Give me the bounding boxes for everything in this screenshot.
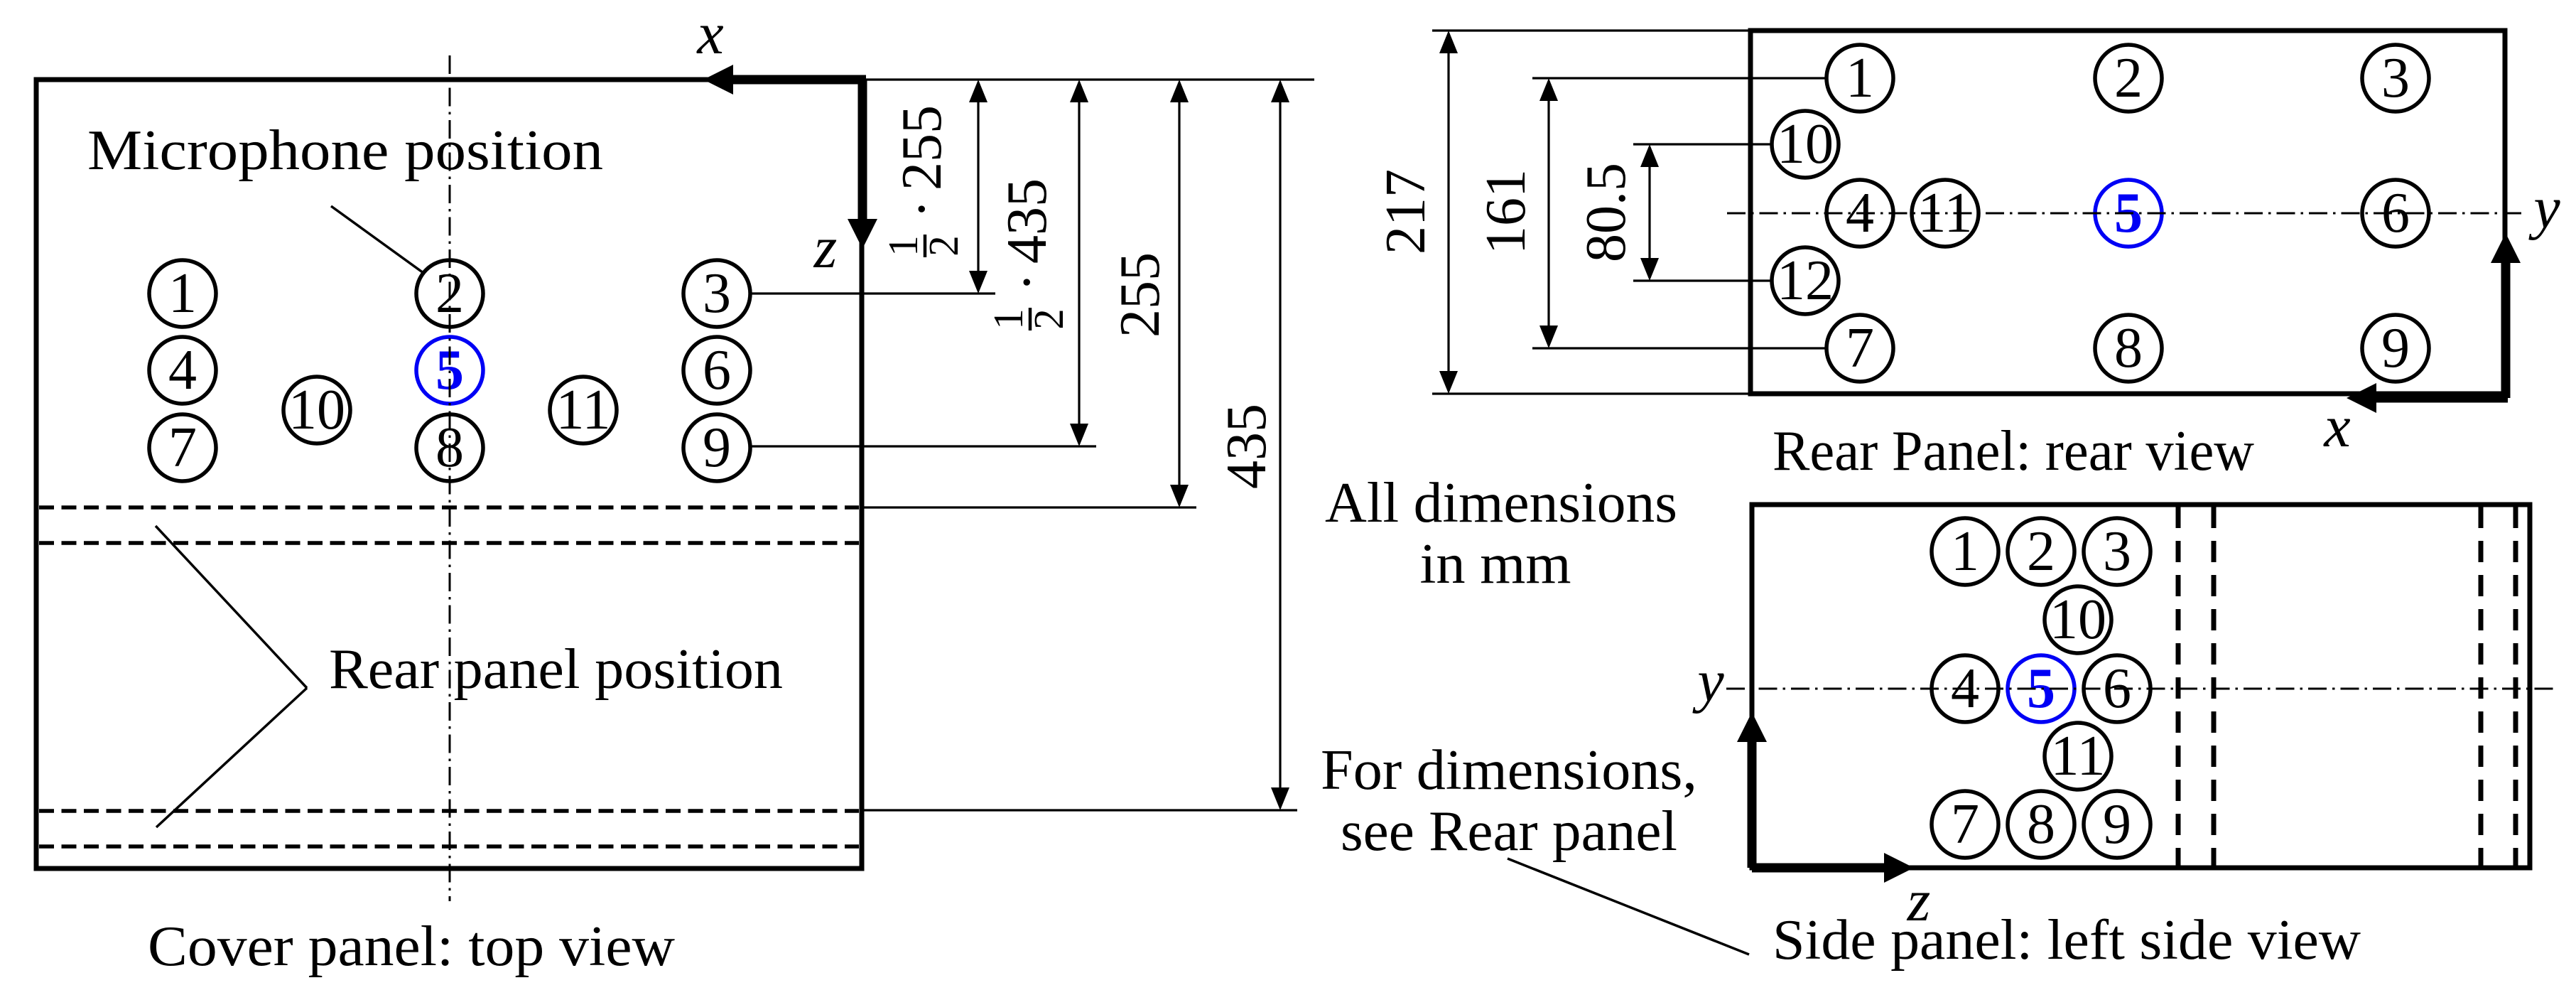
svg-text:x: x — [2322, 394, 2350, 460]
extension line rear panel pos 1 — [862, 506, 1196, 508]
microphone circle 2 (rear) — [2095, 45, 2162, 112]
svg-text:11: 11 — [2050, 725, 2105, 787]
svg-text:9: 9 — [703, 416, 731, 479]
rear panel position dashed line 1a — [39, 505, 859, 510]
microphone circle 8 (rear) — [2095, 315, 2162, 382]
microphone circle 6 (side) — [2084, 655, 2150, 722]
svg-text:7: 7 — [1951, 793, 1979, 856]
extension line circle 10 row (rear) — [1633, 143, 1773, 145]
svg-text:y: y — [2528, 175, 2560, 241]
svg-text:Rear Panel: rear view: Rear Panel: rear view — [1773, 420, 2254, 483]
side panel dashed line 1 — [2176, 507, 2181, 866]
svg-text:x: x — [696, 1, 723, 67]
microphone circle 5 (rear, blue) — [2095, 180, 2162, 247]
svg-text:9: 9 — [2103, 793, 2131, 856]
microphone circle 4 (cover) — [149, 337, 216, 404]
dimension line 80.5 — [1648, 147, 1650, 278]
x axis (cover panel) — [726, 75, 866, 85]
dimension label 255 — [1109, 252, 1171, 338]
microphone circle 4 (side) — [1932, 655, 1998, 722]
svg-text:Microphone position: Microphone position — [87, 119, 603, 182]
svg-text:For dimensions,: For dimensions, — [1321, 739, 1697, 802]
svg-text:3: 3 — [2381, 47, 2410, 109]
rear panel position dashed line 2b — [39, 844, 859, 849]
microphone circle 9 (side) — [2084, 791, 2150, 858]
microphone circle 7 (cover) — [149, 414, 216, 481]
side panel dashed line 4 — [2513, 507, 2518, 866]
dimension label half-435 — [985, 178, 1072, 330]
svg-text:8: 8 — [2114, 317, 2143, 380]
microphone circle 10 (rear) — [1772, 111, 1839, 178]
pointer line to side panel caption — [1508, 859, 1749, 954]
extension line circle 9 row — [751, 445, 1096, 447]
cover panel centerline (dash-dot) — [449, 55, 451, 901]
microphone circle 11 (side) — [2045, 723, 2111, 790]
microphone circle 1 (cover) — [149, 260, 216, 327]
svg-text:255: 255 — [1109, 252, 1171, 338]
rear panel extension line bottom — [1432, 392, 1750, 394]
z axis (side panel) — [1752, 864, 1885, 873]
svg-text:3: 3 — [703, 262, 731, 325]
svg-text:Rear panel position: Rear panel position — [329, 638, 783, 701]
svg-text:Side panel: left side view: Side panel: left side view — [1773, 909, 2361, 972]
microphone circle 5 (side, blue) — [2008, 655, 2074, 722]
microphone position pointer line — [331, 206, 423, 273]
rear panel extension line top — [1432, 29, 1750, 31]
svg-text:10: 10 — [2050, 588, 2106, 651]
microphone circle 10 (cover) — [283, 377, 350, 443]
svg-text:7: 7 — [168, 416, 197, 479]
dimension label half-255 — [880, 105, 967, 257]
dimension label 217 — [1375, 169, 1437, 254]
dimension line 161 — [1547, 81, 1549, 345]
microphone circle 9 (rear) — [2362, 315, 2429, 382]
svg-text:2: 2 — [920, 235, 967, 257]
rear panel centerline (dash-dot) — [1727, 213, 2523, 215]
extension line circle 7 row (rear) — [1532, 347, 1828, 349]
svg-text:1: 1 — [1951, 520, 1979, 583]
dimension label 161 — [1475, 169, 1537, 254]
microphone circle 8 (cover) — [416, 414, 483, 481]
y axis (side panel) — [1748, 741, 1757, 868]
dimension line half-255 — [977, 82, 979, 291]
microphone circle 3 (rear) — [2362, 45, 2429, 112]
microphone circle 7 (rear) — [1827, 315, 1893, 382]
svg-text:3: 3 — [2103, 520, 2131, 583]
microphone circle 1 (side) — [1932, 518, 1998, 585]
microphone circle 11 (rear) — [1912, 180, 1979, 247]
svg-text:435: 435 — [1216, 404, 1278, 489]
rear panel outline — [1750, 31, 2505, 394]
svg-text:6: 6 — [703, 339, 731, 402]
svg-text:y: y — [1692, 648, 1724, 714]
svg-text:in mm: in mm — [1420, 533, 1571, 596]
side panel dashed line 2 — [2212, 507, 2217, 866]
microphone circle 6 (cover) — [683, 337, 750, 404]
extension line circle 3 row — [751, 292, 995, 294]
svg-text:·: · — [996, 273, 1059, 292]
svg-text:80.5: 80.5 — [1575, 163, 1638, 262]
dimension line 255 — [1178, 82, 1180, 505]
rear panel position dashed line 1b — [39, 541, 859, 545]
x axis (rear panel) — [2376, 394, 2508, 403]
microphone circle 3 (cover) — [683, 260, 750, 327]
dimension label 80.5 — [1575, 163, 1638, 262]
cover panel outline — [36, 80, 862, 868]
extension line circle 1 row (rear) — [1532, 77, 1828, 79]
side panel outline — [1752, 505, 2530, 868]
side panel centerline (dash-dot) — [1726, 688, 2558, 690]
dimension label 435 — [1216, 404, 1278, 489]
svg-text:12: 12 — [1777, 249, 1834, 312]
svg-text:7: 7 — [1846, 317, 1874, 380]
svg-text:255: 255 — [891, 105, 953, 190]
svg-text:11: 11 — [556, 379, 610, 441]
svg-text:435: 435 — [996, 178, 1059, 264]
microphone circle 3 (side) — [2084, 518, 2150, 585]
svg-text:All dimensions: All dimensions — [1325, 472, 1677, 534]
svg-text:2: 2 — [1025, 308, 1072, 330]
y axis (rear panel) — [2501, 262, 2511, 398]
microphone circle 2 (side) — [2008, 518, 2074, 585]
svg-text:·: · — [891, 200, 953, 219]
svg-text:217: 217 — [1375, 169, 1437, 254]
dimension line 217 — [1447, 33, 1449, 391]
rear panel position pointer lower arm — [156, 688, 307, 827]
microphone circle 11 (cover) — [550, 377, 617, 443]
svg-text:Cover panel: top view: Cover panel: top view — [148, 915, 675, 978]
svg-text:8: 8 — [2027, 793, 2055, 856]
svg-text:161: 161 — [1475, 169, 1537, 254]
extension line rear panel pos 2 — [862, 809, 1297, 811]
z axis (cover panel) — [858, 80, 867, 220]
svg-text:2: 2 — [2114, 47, 2143, 109]
microphone circle 9 (cover) — [683, 414, 750, 481]
top extension line (cover) — [866, 78, 1314, 80]
svg-text:10: 10 — [288, 379, 345, 441]
microphone circle 10 (side) — [2045, 586, 2111, 653]
side panel dashed line 3 — [2479, 507, 2484, 866]
microphone circle 2 (cover) — [416, 260, 483, 327]
microphone circle 7 (side) — [1932, 791, 1998, 858]
microphone circle 4 (rear) — [1827, 180, 1893, 247]
svg-text:9: 9 — [2381, 317, 2410, 380]
microphone circle 6 (rear) — [2362, 180, 2429, 247]
microphone circle 8 (side) — [2008, 791, 2074, 858]
svg-text:1: 1 — [1846, 47, 1874, 109]
rear panel position dashed line 2a — [39, 809, 859, 813]
dimension line 435 — [1279, 82, 1281, 807]
svg-text:10: 10 — [1777, 113, 1834, 176]
dimension line half-435 — [1078, 82, 1080, 443]
extension line circle 12 row (rear) — [1633, 279, 1773, 281]
microphone circle 5 (cover, blue) — [416, 337, 483, 404]
svg-text:see Rear panel: see Rear panel — [1341, 800, 1677, 863]
rear panel position pointer upper arm — [156, 526, 307, 688]
microphone circle 12 (rear) — [1772, 247, 1839, 314]
svg-text:4: 4 — [168, 339, 197, 402]
svg-text:1: 1 — [168, 262, 197, 325]
svg-text:2: 2 — [2027, 520, 2055, 583]
svg-text:z: z — [813, 215, 838, 281]
microphone circle 1 (rear) — [1827, 45, 1893, 112]
